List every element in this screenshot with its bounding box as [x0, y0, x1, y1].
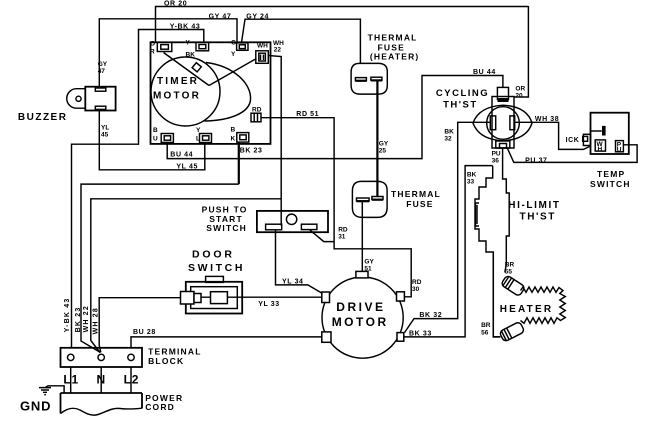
svg-text:Y-BK 43: Y-BK 43	[64, 298, 71, 333]
svg-text:BU 44: BU 44	[473, 69, 496, 76]
svg-text:TEMP: TEMP	[597, 169, 625, 179]
ground	[20, 386, 64, 414]
wire Y-BK 43	[72, 30, 204, 349]
svg-text:PU 37: PU 37	[525, 158, 547, 165]
timer pointer arm 2	[209, 59, 257, 86]
wire WH 22	[91, 56, 281, 353]
svg-text:36: 36	[492, 158, 500, 165]
svg-text:FUSE: FUSE	[406, 199, 433, 209]
svg-text:L: L	[196, 136, 200, 143]
thermal fuse 2	[352, 181, 441, 217]
timer cam curve	[205, 63, 251, 122]
wire RD 31 tap	[310, 230, 334, 242]
svg-text:45: 45	[101, 132, 109, 139]
timer pointer arm 1	[164, 53, 210, 86]
wire BK 32	[405, 122, 491, 332]
svg-text:BK 23: BK 23	[240, 147, 263, 154]
svg-text:OR 20: OR 20	[164, 1, 187, 8]
svg-text:YL: YL	[101, 125, 109, 132]
svg-text:25: 25	[379, 147, 387, 154]
terminal block vertical wire labels	[64, 298, 100, 335]
wire BU 44	[167, 76, 503, 159]
svg-text:R: R	[150, 49, 155, 56]
wire BR 56	[493, 252, 500, 337]
wire RD 51	[261, 118, 411, 297]
svg-text:L1: L1	[63, 373, 79, 387]
timer motor box	[151, 42, 271, 144]
svg-text:BK 32: BK 32	[419, 312, 442, 319]
drive motor	[322, 271, 405, 358]
svg-text:33: 33	[467, 179, 475, 186]
svg-text:L2: L2	[124, 373, 140, 387]
svg-text:K: K	[231, 136, 236, 143]
wire BK 33	[404, 166, 493, 337]
wire PU 37	[508, 145, 638, 163]
svg-text:22: 22	[274, 47, 282, 54]
svg-text:WH 38: WH 38	[535, 116, 559, 123]
timer terminal RD	[251, 107, 262, 122]
svg-text:MOTOR: MOTOR	[153, 90, 201, 101]
svg-text:BU 28: BU 28	[133, 329, 156, 336]
svg-text:PUSH TO: PUSH TO	[202, 204, 248, 214]
timer terminal WH	[256, 43, 268, 64]
wire WH 28	[99, 298, 180, 353]
timer terminal Y-BK	[186, 40, 209, 59]
svg-text:RD 51: RD 51	[296, 111, 319, 118]
svg-text:GY: GY	[379, 140, 389, 147]
buzzer	[18, 87, 116, 123]
svg-text:GY 47: GY 47	[209, 13, 232, 20]
svg-text:WH 28: WH 28	[93, 307, 100, 334]
thermal fuse (heater)	[351, 32, 419, 94]
svg-text:THERMAL: THERMAL	[368, 32, 418, 42]
svg-text:TH'ST: TH'ST	[443, 100, 478, 111]
svg-text:31: 31	[338, 234, 346, 241]
svg-text:YL 34: YL 34	[282, 278, 304, 285]
svg-text:THERMAL: THERMAL	[391, 189, 441, 199]
svg-text:BK: BK	[444, 129, 454, 136]
svg-text:CYCLING: CYCLING	[436, 88, 489, 99]
svg-text:BK: BK	[467, 172, 477, 179]
svg-text:U: U	[617, 146, 622, 153]
heater	[481, 262, 565, 342]
svg-text:H: H	[598, 146, 603, 153]
timer terminal BU	[153, 127, 173, 143]
svg-text:RD: RD	[338, 227, 348, 234]
svg-text:GY: GY	[364, 259, 374, 266]
svg-text:RD: RD	[412, 279, 422, 286]
svg-text:TH'ST: TH'ST	[520, 212, 557, 223]
svg-text:WH: WH	[257, 43, 268, 50]
timer terminal YL	[196, 127, 212, 143]
terminal block	[61, 347, 202, 367]
wire GY 24	[242, 19, 361, 63]
wire YL 45	[99, 111, 205, 170]
push to start switch	[202, 204, 328, 233]
wire BK 23	[238, 142, 240, 184]
svg-text:30: 30	[412, 286, 420, 293]
svg-text:SWITCH: SWITCH	[206, 223, 247, 233]
svg-text:TIMER: TIMER	[157, 76, 199, 87]
wire WH 38	[515, 122, 590, 149]
svg-text:ICK: ICK	[566, 137, 580, 144]
svg-text:YL 33: YL 33	[258, 301, 280, 308]
svg-text:Y-: Y-	[186, 40, 192, 47]
power cord	[61, 393, 184, 415]
svg-text:HEATER: HEATER	[500, 304, 554, 315]
svg-text:MOTOR: MOTOR	[332, 315, 389, 329]
svg-text:(HEATER): (HEATER)	[370, 52, 420, 62]
timer terminal OR	[150, 41, 172, 56]
svg-text:BU 44: BU 44	[170, 152, 193, 159]
svg-text:CORD: CORD	[145, 402, 175, 412]
svg-text:U: U	[153, 136, 158, 143]
svg-text:BR: BR	[505, 262, 515, 269]
svg-text:OR: OR	[515, 86, 525, 93]
timer pointer flag	[192, 63, 201, 72]
svg-text:B: B	[231, 127, 236, 134]
svg-text:BK 33: BK 33	[409, 331, 432, 338]
svg-text:BK: BK	[186, 52, 196, 59]
wire YL 34	[276, 230, 323, 294]
svg-text:SWITCH: SWITCH	[590, 179, 631, 189]
svg-text:WH 22: WH 22	[83, 305, 90, 332]
svg-text:BR: BR	[481, 322, 491, 329]
svg-text:56: 56	[481, 329, 489, 336]
wire YL 33	[201, 296, 322, 298]
heater bottom lug	[499, 321, 525, 342]
svg-text:SWITCH: SWITCH	[188, 262, 245, 274]
hi-limit thermostat	[475, 148, 561, 337]
svg-text:B: B	[153, 127, 158, 134]
svg-text:DOOR: DOOR	[192, 249, 235, 261]
svg-text:GY 24: GY 24	[246, 13, 269, 20]
temp switch	[566, 113, 631, 189]
svg-text:YL 45: YL 45	[176, 163, 198, 170]
svg-text:HI-LIMIT: HI-LIMIT	[508, 200, 560, 211]
wire GY 51	[361, 202, 363, 272]
timer motor circle	[151, 57, 220, 126]
svg-text:BLOCK: BLOCK	[148, 356, 184, 366]
svg-text:20: 20	[515, 93, 523, 100]
timer terminal G-Y	[231, 40, 248, 59]
svg-text:Y: Y	[196, 127, 201, 134]
svg-text:BUZZER: BUZZER	[18, 112, 68, 123]
svg-text:DRIVE: DRIVE	[336, 300, 385, 314]
svg-text:N: N	[97, 373, 106, 387]
wire GY 25	[376, 80, 378, 196]
wire BU 28	[131, 337, 322, 348]
svg-text:PU: PU	[492, 151, 501, 158]
svg-text:G: G	[231, 40, 236, 47]
block to cord wires	[71, 367, 131, 393]
svg-text:O: O	[150, 41, 155, 48]
svg-text:Y-BK 43: Y-BK 43	[170, 23, 201, 30]
svg-text:Y: Y	[231, 51, 236, 58]
door switch	[181, 249, 246, 314]
svg-text:55: 55	[505, 269, 513, 276]
L1 N L2 labels	[63, 373, 139, 387]
svg-text:32: 32	[444, 136, 452, 143]
wire OR 20	[156, 7, 529, 43]
svg-text:GND: GND	[20, 399, 51, 414]
wire GY 47	[99, 19, 237, 87]
svg-text:GY: GY	[98, 61, 108, 68]
svg-text:BK 23: BK 23	[75, 307, 82, 333]
heater element zigzag	[521, 287, 566, 323]
svg-text:RD: RD	[252, 107, 262, 114]
cycling thermostat	[436, 87, 532, 148]
svg-text:47: 47	[98, 68, 106, 75]
heater top lug	[501, 275, 526, 297]
timer terminal BK	[231, 127, 249, 143]
